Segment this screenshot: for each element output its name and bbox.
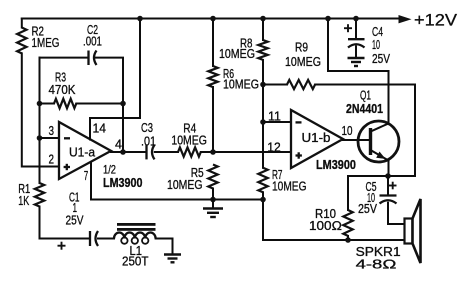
node dot R5 bottom <box>210 197 216 203</box>
+12V arrow and label <box>399 11 458 29</box>
resistor R1 <box>18 182 44 239</box>
svg-text:C3: C3 <box>141 121 153 135</box>
ground (R5) <box>203 200 223 218</box>
wire top +12V rail <box>22 18 400 20</box>
svg-text:12: 12 <box>267 140 281 154</box>
op-amp U1-a <box>59 122 143 190</box>
wire emitter down <box>385 161 391 179</box>
resistor R4 <box>171 122 291 157</box>
wire pin 12 label <box>267 140 281 154</box>
svg-text:25V: 25V <box>358 202 378 216</box>
svg-text:LM3900: LM3900 <box>316 158 356 172</box>
wire C2 top <box>40 58 124 152</box>
svg-text:LM3900: LM3900 <box>103 176 143 190</box>
resistor R8 + column from rail <box>219 16 268 168</box>
svg-text:1/2: 1/2 <box>103 163 116 177</box>
wire R2 bottom to U1-a +input (pin 2) <box>22 53 59 166</box>
node dot R7 bottom / ground bus <box>260 197 266 203</box>
svg-text:1MEG: 1MEG <box>32 36 60 50</box>
resistor R5 <box>167 165 218 200</box>
svg-text:U1-a: U1-a <box>69 146 95 160</box>
svg-text:R9: R9 <box>295 41 308 55</box>
capacitor C1 <box>40 191 115 250</box>
ground (L1) <box>164 255 181 263</box>
svg-text:1K: 1K <box>18 194 29 208</box>
svg-text:10: 10 <box>372 38 380 52</box>
svg-text:100Ω: 100Ω <box>309 219 342 233</box>
svg-text:10MEG: 10MEG <box>167 178 203 192</box>
node dot R8/R9 <box>260 82 266 88</box>
wire R9 right to emitter node <box>388 85 415 177</box>
wire pin 7 to ground bus <box>84 162 263 200</box>
capacitor C3 <box>141 121 178 159</box>
node dot pin 11 <box>260 119 266 125</box>
svg-text:3: 3 <box>49 124 55 138</box>
svg-text:4: 4 <box>115 138 122 152</box>
resistor R6 <box>208 16 259 152</box>
wire pin 3 <box>40 124 60 138</box>
capacitor C4 <box>344 16 391 66</box>
svg-text:25V: 25V <box>66 214 85 228</box>
resistor R2 <box>17 19 59 54</box>
wire collector to +12V <box>325 16 388 124</box>
svg-text:470K: 470K <box>49 83 77 97</box>
svg-text:14: 14 <box>93 122 107 136</box>
wire U1-b output to Q1 base <box>343 139 369 141</box>
svg-text:10MEG: 10MEG <box>223 78 259 92</box>
capacitor C5 <box>358 176 405 224</box>
svg-text:10MEG: 10MEG <box>285 55 321 69</box>
svg-text:2N4401: 2N4401 <box>346 102 383 116</box>
node dot R4/R5/R6 <box>210 149 216 155</box>
wire pin 14 supply feed <box>90 16 143 140</box>
svg-text:.01: .01 <box>141 134 156 148</box>
node dot pin3 <box>37 135 43 141</box>
svg-text:10MEG: 10MEG <box>171 134 207 148</box>
resistor R3 <box>40 71 124 109</box>
svg-text:10MEG: 10MEG <box>219 47 255 61</box>
svg-text:U1-b: U1-b <box>302 131 331 145</box>
svg-text:10MEG: 10MEG <box>272 179 307 193</box>
transistor Q1 <box>346 88 399 162</box>
wire U1-a output (pin 4) <box>111 138 146 155</box>
ground (C4) <box>348 58 365 66</box>
wire bottom bus to speaker <box>263 239 405 241</box>
svg-text:+12V: +12V <box>414 11 457 29</box>
node dot R10 bottom <box>345 237 351 243</box>
svg-text:11: 11 <box>268 110 281 124</box>
inductor L1 <box>114 223 156 269</box>
svg-text:25V: 25V <box>372 52 391 66</box>
svg-text:10: 10 <box>342 124 353 138</box>
node dot R3-left <box>37 101 43 107</box>
wire pin 11 <box>263 110 291 124</box>
wire pin 2 label <box>49 153 55 167</box>
capacitor C2 <box>83 23 102 65</box>
svg-text:2: 2 <box>49 153 55 167</box>
svg-text:7: 7 <box>84 169 89 183</box>
node dot C2/R3 right <box>120 101 126 107</box>
wire L1 to ground <box>156 239 173 254</box>
svg-text:4-8Ω: 4-8Ω <box>356 258 397 272</box>
svg-text:Q1: Q1 <box>360 88 371 102</box>
svg-text:250T: 250T <box>122 255 149 269</box>
speaker SPKR1 <box>356 199 421 272</box>
resistor R9 <box>263 41 415 90</box>
node A: left feedback vertical (C2/R3 to pin 3, R1) <box>39 58 41 183</box>
svg-text:.001: .001 <box>83 34 102 48</box>
resistor R7 <box>258 168 306 240</box>
resistor R10 <box>309 176 388 240</box>
op-amp U1-b <box>291 110 356 172</box>
